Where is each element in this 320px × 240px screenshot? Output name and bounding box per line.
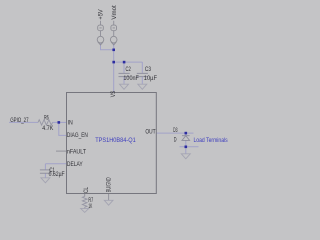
svg-text:Load Terminals: Load Terminals [194,137,229,144]
svg-text:+5V: +5V [98,8,105,19]
svg-text:R6: R6 [44,114,49,121]
svg-text:1K: 1K [88,203,92,210]
svg-text:100nF: 100nF [123,75,139,82]
svg-text:10µF: 10µF [144,75,157,82]
svg-text:VS: VS [110,91,117,98]
svg-text:DELAY: DELAY [67,161,83,168]
svg-text:CL: CL [83,187,90,193]
svg-text:D: D [174,137,177,144]
svg-text:D3: D3 [173,127,178,134]
svg-text:0.62µF: 0.62µF [49,171,65,178]
svg-text:TPS1H0B84-Q1: TPS1H0B84-Q1 [95,138,136,144]
svg-text:BU/GND: BU/GND [106,177,113,192]
svg-text:IN: IN [68,120,73,127]
svg-text:C3: C3 [145,66,152,73]
svg-text:OUT: OUT [145,129,155,136]
svg-text:4.7K: 4.7K [42,125,54,132]
svg-text:DIAG_EN: DIAG_EN [67,132,88,139]
svg-text:Vmot: Vmot [111,5,118,20]
svg-text:GPIO_27: GPIO_27 [10,117,29,124]
svg-text:C2: C2 [126,66,132,73]
svg-text:nFAULT: nFAULT [67,148,86,155]
